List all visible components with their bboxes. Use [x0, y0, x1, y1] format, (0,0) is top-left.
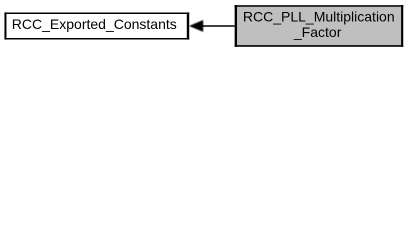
- svg-text:RCC_PLL_Multiplication: RCC_PLL_Multiplication: [243, 9, 395, 25]
- svg-text:_Factor: _Factor: [293, 24, 342, 40]
- node RCC_PLL_Multiplication_Factor (current, grey filled): [235, 5, 404, 47]
- wire (edge from RCC_PLL_Multiplication_Factor to RCC_Exported_Constants): [202, 25, 236, 27]
- svg-text:RCC_Exported_Constants: RCC_Exported_Constants: [12, 16, 177, 32]
- background: [0, 0, 408, 52]
- arrowhead pointing left: [189, 20, 203, 32]
- node RCC_Exported_Constants: [4, 12, 189, 39]
